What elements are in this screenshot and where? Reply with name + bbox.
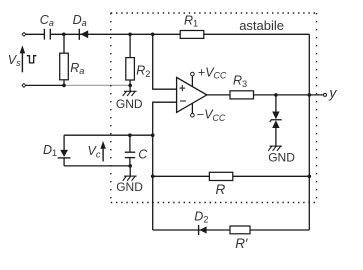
source arrow Vs bbox=[20, 45, 26, 72]
wire gray common line bbox=[64, 84, 130, 86]
wire R' row bbox=[153, 229, 310, 231]
node plus branch bbox=[151, 33, 155, 37]
wire minus-input branch bbox=[153, 102, 177, 230]
svg-text:R′: R′ bbox=[235, 236, 248, 251]
resistor R' bbox=[230, 226, 250, 234]
wire Ra column bottom bbox=[63, 80, 65, 86]
wire D1 bottom row bbox=[64, 165, 130, 167]
terminal input top bbox=[22, 32, 26, 36]
node R row left bbox=[151, 175, 155, 179]
terminal input bottom bbox=[22, 84, 26, 88]
pulse symbol bbox=[27, 56, 37, 63]
wire -Vcc stub bbox=[191, 103, 193, 113]
capacitor Ca bbox=[44, 29, 50, 40]
wire right vertical bbox=[308, 34, 310, 230]
wire source bottom rail bbox=[26, 84, 64, 86]
wire C row bbox=[64, 134, 153, 136]
wire D1 column top bbox=[63, 135, 65, 150]
op-amp input polarity marks bbox=[179, 85, 186, 101]
ground under C bbox=[123, 176, 137, 181]
terminal -Vcc bbox=[191, 113, 195, 117]
terminal +Vcc bbox=[191, 72, 195, 76]
wire zener column bottom bbox=[275, 128, 277, 146]
node R2 gnd bbox=[128, 84, 132, 88]
node zener tap bbox=[274, 93, 278, 97]
dotted box astabile bbox=[111, 13, 317, 203]
wire C branch top bbox=[129, 135, 131, 152]
wire D1 column bottom bbox=[63, 158, 65, 166]
op-amp U1 bbox=[177, 77, 207, 112]
terminal y bbox=[324, 93, 327, 96]
wire C gnd stub bbox=[129, 166, 131, 176]
ground under R2 bbox=[123, 91, 137, 96]
wire +Vcc stub bbox=[191, 76, 193, 86]
resistor R bbox=[209, 172, 232, 180]
wire top rail left of Ca bbox=[26, 33, 44, 35]
wire R2 column top bbox=[129, 34, 131, 57]
arrow Vc bbox=[100, 141, 105, 161]
svg-text:GND: GND bbox=[116, 180, 143, 194]
node C bottom / D1 bbox=[128, 164, 132, 168]
resistor Ra bbox=[60, 53, 69, 80]
resistor R2 bbox=[126, 58, 135, 80]
wire top rail Ca to right corner bbox=[51, 33, 310, 35]
diode D1 bbox=[58, 150, 71, 158]
diode D2 bbox=[199, 225, 207, 235]
node R row right bbox=[308, 175, 312, 179]
zener pair (clamp) bbox=[270, 112, 282, 129]
ground under zener bbox=[268, 146, 282, 151]
wire C branch bottom bbox=[129, 158, 131, 166]
node Ca/Da/Ra bbox=[62, 33, 66, 37]
svg-text:y: y bbox=[328, 85, 337, 101]
svg-text:GND: GND bbox=[268, 151, 295, 165]
node output / right vertical bbox=[308, 93, 312, 97]
svg-text:C: C bbox=[138, 148, 148, 162]
svg-text:R: R bbox=[216, 182, 226, 197]
resistor R1 bbox=[180, 31, 204, 39]
node C top bbox=[128, 133, 132, 137]
svg-text:astabile: astabile bbox=[239, 18, 284, 33]
wire zener column top bbox=[275, 95, 277, 112]
capacitor C bbox=[125, 152, 135, 157]
wire Ra column top bbox=[63, 34, 65, 53]
svg-text:GND: GND bbox=[116, 97, 143, 111]
wire R2 column bottom bbox=[129, 80, 131, 91]
node minus column / C row bbox=[151, 133, 155, 137]
wire plus-input branch bbox=[153, 34, 177, 89]
node source bottom bbox=[62, 84, 66, 88]
resistor R3 bbox=[230, 91, 254, 99]
terminals (open circles) bbox=[22, 32, 327, 117]
wire R row bbox=[153, 175, 310, 177]
node R2 top bbox=[128, 33, 132, 37]
diode Da bbox=[79, 29, 88, 40]
wire output row bbox=[207, 94, 323, 96]
